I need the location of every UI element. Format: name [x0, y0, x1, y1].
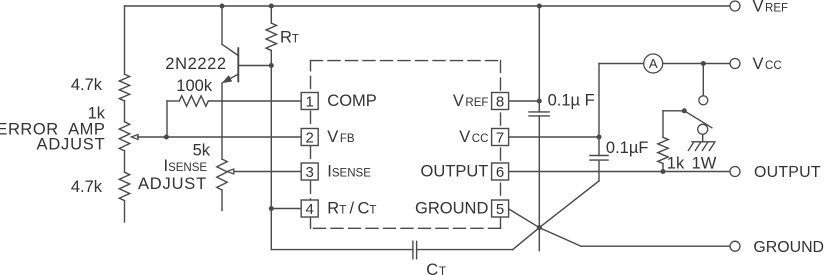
wire Vcc left segment — [599, 63, 644, 65]
label pin 8 VREF — [453, 92, 489, 110]
svg-text:OUTPUT: OUTPUT — [754, 164, 821, 181]
wire pin 8 (VREF) to C1 — [509, 100, 540, 102]
resistor R6 1k 1W — [658, 137, 668, 163]
node top-rail / C1 junction — [537, 4, 542, 9]
label GROUND terminal — [753, 239, 824, 256]
node switch pivot — [682, 108, 687, 113]
svg-text:ISENSE: ISENSE — [164, 157, 208, 175]
terminal VCC — [730, 59, 740, 69]
terminal VREF — [730, 1, 740, 11]
label CT — [426, 261, 446, 275]
switch S1 lower contact — [698, 124, 708, 134]
resistor R1 4.7k — [119, 74, 129, 101]
pin 6 box — [492, 163, 509, 181]
wire switch stub from Vcc — [702, 64, 704, 96]
node Vcc / switch junction — [701, 61, 706, 66]
node wiper / 100k junction — [164, 135, 169, 140]
pin 8 box — [492, 93, 509, 111]
svg-text:7: 7 — [496, 129, 504, 146]
label pin 1 COMP — [327, 92, 377, 110]
label R3 4.7k — [71, 178, 103, 196]
pin 7 box — [492, 129, 509, 147]
node Q1 base / RT junction — [269, 63, 274, 68]
transistor Q1 base bar — [237, 48, 239, 81]
potentiometer R2 1k ERROR AMP ADJUST — [119, 122, 129, 151]
label pin 5 GROUND — [415, 199, 488, 217]
switch S1 blade — [684, 111, 712, 128]
svg-text:1k: 1k — [667, 154, 685, 172]
wire CT to X junction diagonal — [513, 228, 540, 250]
wiper arrow of R2 — [131, 135, 138, 140]
node 1k / OUTPUT junction — [661, 169, 666, 174]
label ADJUST (Isense) — [138, 175, 207, 193]
wire CT right — [417, 249, 513, 251]
wire left rail bottom stub — [124, 201, 126, 222]
wire Q1 emitter to 5k pot — [221, 83, 223, 159]
wire C2 bottom lead — [598, 160, 600, 181]
wire CT left — [271, 249, 413, 251]
wire pin 5 (GROUND) to X junction diagonal — [509, 209, 540, 228]
wire X junction to GROUND terminal diagonal — [539, 228, 581, 247]
svg-text:ADJUST: ADJUST — [138, 175, 207, 193]
svg-text:GROUND: GROUND — [753, 239, 824, 256]
node pin 8 / C1 junction — [537, 99, 542, 104]
IC U1 dashed outline — [311, 61, 501, 229]
resistor R4 100k — [179, 96, 208, 106]
svg-text:VREF: VREF — [753, 0, 789, 16]
svg-text:0.1µF: 0.1µF — [606, 139, 649, 157]
svg-text:4: 4 — [306, 201, 314, 218]
svg-text:RT: RT — [280, 29, 299, 47]
transistor Q1 2N2222 collector lead — [222, 44, 238, 55]
wire Q1 collector from top rail — [221, 6, 223, 44]
svg-text:OUTPUT: OUTPUT — [421, 162, 489, 180]
svg-text:RT / CT: RT / CT — [327, 199, 376, 217]
svg-text:5k: 5k — [193, 141, 211, 159]
svg-text:GROUND: GROUND — [415, 199, 488, 217]
terminal GROUND — [730, 241, 740, 251]
label RT — [280, 29, 299, 47]
potentiometer R5 5k ISENSE ADJUST — [217, 159, 227, 190]
transistor Q1 emitter lead — [224, 74, 239, 82]
svg-text:8: 8 — [496, 93, 504, 110]
label pin 4 RT/CT — [327, 199, 376, 217]
wire Vcc right segment — [663, 63, 730, 65]
label R6 1k — [667, 154, 685, 172]
label ADJUST (error amp) — [37, 136, 106, 154]
wire C2 to X junction diagonal — [539, 181, 599, 228]
wire C1 column lower — [538, 116, 540, 251]
wire left rail upper — [124, 6, 126, 74]
svg-text:1: 1 — [306, 93, 314, 110]
terminal OUTPUT — [730, 167, 740, 177]
svg-text:4.7k: 4.7k — [71, 178, 103, 196]
label R2 1k — [88, 105, 106, 123]
transistor Q1 emitter arrow — [224, 76, 232, 82]
wire RT top lead — [270, 6, 272, 23]
wire Q1 base to RT node — [238, 65, 271, 67]
label pin 6 OUTPUT — [421, 162, 489, 180]
switch S1 upper contact — [699, 96, 708, 105]
svg-text:VCC: VCC — [753, 55, 782, 73]
wire top rail (VREF bus) — [125, 5, 731, 7]
pin 2 box — [301, 129, 318, 147]
svg-text:ADJUST: ADJUST — [37, 136, 106, 154]
ground symbol (chassis) — [688, 142, 715, 151]
label OUTPUT terminal — [754, 164, 821, 181]
resistor R3 4.7k — [119, 172, 129, 200]
svg-text:CT: CT — [426, 261, 446, 275]
wire pin 4 node to CT corner — [270, 209, 272, 250]
wire left rail between R1 and R2 — [124, 101, 126, 122]
label R4 100k — [176, 77, 213, 95]
label VCC terminal — [753, 55, 782, 73]
wire RT column to pin 4 node — [270, 66, 272, 209]
label R6 1W — [692, 154, 717, 172]
svg-text:3: 3 — [306, 164, 314, 181]
svg-text:2N2222: 2N2222 — [165, 55, 226, 73]
wire 1k top lead — [662, 111, 664, 138]
svg-text:6: 6 — [496, 164, 504, 181]
wire lower contact to ground symbol — [702, 134, 704, 142]
svg-text:COMP: COMP — [327, 92, 377, 110]
label ISENSE — [164, 157, 208, 175]
capacitor CT — [413, 241, 417, 258]
wire 5k pot bottom stub — [221, 190, 223, 211]
wire 100k left lead vertical — [166, 101, 168, 137]
svg-text:100k: 100k — [176, 77, 213, 95]
wire left rail between R2 and R3 — [124, 151, 126, 172]
pin 5 box — [492, 200, 509, 218]
capacitor C2 0.1uF — [590, 156, 608, 161]
wire 1k bottom lead — [662, 164, 664, 172]
svg-text:ISENSE: ISENSE — [327, 162, 371, 180]
label pin 7 VCC — [459, 128, 488, 146]
svg-text:1W: 1W — [692, 154, 717, 172]
wire R2 wiper to pin 2 (VFB) — [138, 136, 302, 138]
node X junction (ground node) — [537, 225, 542, 230]
wire switch pivot to 1k corner — [663, 110, 684, 112]
svg-text:0.1µ F: 0.1µ F — [548, 91, 595, 109]
label ERROR AMP — [0, 121, 106, 139]
wire C1 column upper — [538, 6, 540, 112]
wire R5 wiper to pin 3 (ISENSE) — [234, 171, 301, 173]
svg-text:A: A — [649, 56, 658, 71]
pin 4 box — [301, 200, 318, 218]
wire OUTPUT — [509, 171, 730, 173]
wire 100k to pin 1 (COMP) — [208, 100, 301, 102]
wire GROUND — [581, 245, 730, 247]
node RT/CT pin 4 junction — [269, 206, 274, 211]
svg-text:5: 5 — [496, 201, 504, 218]
label R5 5k — [193, 141, 211, 159]
svg-text:VCC: VCC — [459, 128, 488, 146]
label pin 2 VFB — [327, 128, 355, 146]
wire pin 4 (RT/CT) — [271, 208, 301, 210]
pin 1 box — [301, 93, 318, 111]
node top-rail / Q1 collector junction — [220, 4, 225, 9]
label Q1 2N2222 — [165, 55, 226, 73]
ammeter A1 — [644, 54, 663, 73]
label R1 4.7k — [71, 76, 103, 94]
pin 3 box — [301, 163, 318, 181]
wire pin 7 (VCC) to Vcc column — [509, 136, 599, 138]
resistor RT — [266, 23, 276, 50]
node top-rail / RT junction — [269, 4, 274, 9]
node pin 7 / Vcc column junction — [597, 135, 602, 140]
wire 100k left lead horizontal — [167, 100, 179, 102]
label C2 0.1uF — [606, 139, 649, 157]
capacitor C1 0.1uF — [529, 112, 549, 116]
svg-text:VREF: VREF — [453, 92, 489, 110]
svg-text:4.7k: 4.7k — [71, 76, 103, 94]
svg-text:VFB: VFB — [327, 128, 355, 146]
wire RT bottom lead — [270, 50, 272, 65]
wiper arrow of R5 — [227, 169, 234, 174]
label VREF terminal — [753, 0, 789, 16]
label C1 0.1uF — [548, 91, 595, 109]
wire Vcc column upper — [598, 64, 600, 156]
svg-text:2: 2 — [306, 129, 314, 146]
label pin 3 ISENSE — [327, 162, 371, 180]
